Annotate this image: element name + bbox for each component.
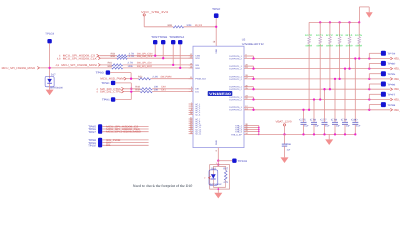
svg-text:VNI8E30: VNI8E30: [209, 92, 231, 96]
svg-text:18: 18: [190, 112, 192, 115]
svg-text:VCC_STB_3V3: VCC_STB_3V3: [141, 11, 169, 14]
svg-text:HSD_OUT6: HSD_OUT6: [394, 108, 400, 112]
svg-text:R59: R59: [111, 55, 116, 58]
svg-text:1uF: 1uF: [346, 125, 351, 128]
svg-text:BAT54GW: BAT54GW: [210, 183, 223, 186]
svg-text:R49: R49: [135, 88, 140, 91]
svg-text:2.7K: 2.7K: [129, 55, 135, 58]
svg-text:49R9: 49R9: [355, 45, 363, 48]
svg-text:TP88: TP88: [159, 36, 168, 39]
svg-text:SW_VDD: SW_VDD: [195, 24, 202, 27]
svg-text:R72: R72: [326, 34, 334, 37]
svg-text:OUTPUT5_2: OUTPUT5_2: [229, 109, 242, 112]
svg-text:TP92: TP92: [212, 8, 221, 11]
svg-text:DI1: DI1: [106, 144, 111, 147]
svg-text:OUTPUT6_2: OUTPUT6_2: [229, 57, 242, 60]
svg-text:DI1: DI1: [161, 88, 166, 91]
svg-text:TP103: TP103: [45, 33, 55, 36]
svg-text:OUTPUT2_2: OUTPUT2_2: [229, 78, 242, 81]
svg-text:DI1: DI1: [195, 91, 199, 94]
svg-text:MCU_HSD_PWM: MCU_HSD_PWM: [100, 78, 124, 81]
svg-text:NC_6: NC_6: [195, 113, 200, 116]
svg-text:4.7K: 4.7K: [223, 181, 228, 184]
svg-text:TP93: TP93: [96, 72, 105, 75]
svg-text:R75: R75: [355, 34, 363, 37]
svg-text:BAT54GW: BAT54GW: [50, 87, 63, 90]
svg-text:16: 16: [213, 41, 216, 44]
svg-text:1uF: 1uF: [336, 125, 341, 128]
svg-text:TAB_4: TAB_4: [235, 130, 242, 133]
svg-text:TP108: TP108: [238, 160, 248, 163]
svg-text:GND: GND: [215, 140, 218, 145]
svg-text:VDD: VDD: [215, 49, 218, 54]
svg-text:R70: R70: [305, 34, 313, 37]
svg-text:TP95: TP95: [387, 73, 396, 76]
svg-text:R67: R67: [223, 167, 228, 170]
svg-text:R63: R63: [108, 65, 113, 68]
svg-text:C78: C78: [331, 119, 338, 122]
svg-text:NC_14: NC_14: [195, 133, 201, 136]
svg-text:TP80: TP80: [387, 63, 396, 66]
svg-text:MCU_SPI_HSD08_MOSI: MCU_SPI_HSD08_MOSI: [106, 131, 141, 134]
svg-text:SDO: SDO: [195, 67, 200, 70]
svg-text:4: 4: [96, 91, 98, 94]
svg-text:R73: R73: [336, 34, 344, 37]
svg-text:SDI: SDI: [195, 64, 199, 67]
svg-text:TP96: TP96: [387, 83, 396, 86]
svg-text:R71: R71: [316, 34, 324, 37]
svg-text:PWM_CLK: PWM_CLK: [195, 78, 206, 81]
svg-text:TP98: TP98: [387, 104, 396, 107]
svg-text:TP90: TP90: [101, 82, 110, 85]
svg-text:MCU_SPI_HSD08_CLK: MCU_SPI_HSD08_CLK: [63, 57, 97, 60]
svg-text:DI0: DI0: [195, 88, 199, 91]
svg-text:SW_DI1_CTRL: SW_DI1_CTRL: [100, 91, 122, 94]
svg-text:C75: C75: [299, 119, 306, 122]
svg-text:C79: C79: [341, 119, 348, 122]
svg-text:49R9: 49R9: [336, 45, 344, 48]
svg-text:SW_SPI_SDO: SW_SPI_SDO: [137, 65, 152, 68]
svg-text:4,8: 4,8: [57, 57, 61, 60]
svg-text:TP97: TP97: [387, 94, 396, 97]
svg-text:R74: R74: [346, 34, 354, 37]
svg-text:1uF: 1uF: [356, 125, 361, 128]
svg-text:OUTPUT4_2: OUTPUT4_2: [229, 98, 242, 101]
svg-text:100E: 100E: [186, 24, 192, 27]
svg-text:D18: D18: [211, 167, 216, 170]
svg-text:C76: C76: [310, 119, 317, 122]
svg-text:C80: C80: [351, 119, 358, 122]
svg-text:100E: 100E: [128, 65, 134, 68]
svg-text:1uF: 1uF: [304, 125, 309, 128]
svg-text:OUTPUT1_2: OUTPUT1_2: [229, 68, 242, 71]
svg-text:HSD_OUT1: HSD_OUT1: [394, 57, 400, 61]
svg-text:VBAT_12V0: VBAT_12V0: [276, 120, 293, 123]
svg-text:VNI8E30TR: VNI8E30TR: [242, 43, 264, 46]
svg-text:2.2K: 2.2K: [152, 75, 158, 78]
svg-text:1uF: 1uF: [287, 149, 291, 152]
svg-text:HSD_OUT4: HSD_OUT4: [394, 87, 400, 91]
svg-text:C66: C66: [287, 143, 292, 146]
svg-text:TP79: TP79: [387, 53, 396, 56]
svg-text:TP102: TP102: [88, 145, 96, 148]
svg-text:TP97: TP97: [88, 131, 96, 134]
svg-text:MCU_SPI_HSD08_MOSI: MCU_SPI_HSD08_MOSI: [61, 64, 97, 67]
svg-text:SW_SPI_CLK: SW_SPI_CLK: [137, 55, 153, 58]
svg-text:R69: R69: [168, 24, 173, 27]
svg-text:Need to check the footprint of: Need to check the footprint of the D10: [133, 184, 193, 188]
svg-text:18: 18: [190, 131, 192, 134]
svg-text:10K: 10K: [154, 88, 159, 91]
svg-text:4,8: 4,8: [56, 64, 60, 67]
svg-text:OUTPUT3_2: OUTPUT3_2: [229, 88, 242, 91]
svg-text:HSD_OUT2: HSD_OUT2: [394, 67, 400, 71]
svg-text:HSD_OUT3: HSD_OUT3: [394, 77, 400, 81]
svg-text:TAB_5_EP: TAB_5_EP: [231, 133, 242, 136]
svg-text:R52: R52: [138, 75, 143, 78]
svg-text:1uF: 1uF: [325, 125, 330, 128]
svg-text:HSD_OUT5: HSD_OUT5: [394, 98, 400, 102]
svg-text:9: 9: [216, 150, 218, 153]
svg-text:TP94: TP94: [176, 36, 185, 39]
svg-text:49R9: 49R9: [326, 45, 334, 48]
svg-text:49R9: 49R9: [305, 45, 313, 48]
svg-text:U3: U3: [242, 39, 246, 42]
svg-text:1uF: 1uF: [315, 125, 320, 128]
svg-text:SCK: SCK: [195, 57, 200, 60]
svg-text:C77: C77: [320, 119, 327, 122]
svg-text:2: 2: [204, 177, 206, 180]
svg-text:MCU_SPI_HSD08_MISO: MCU_SPI_HSD08_MISO: [2, 67, 36, 70]
svg-text:TP91: TP91: [102, 99, 111, 102]
svg-text:49R9: 49R9: [316, 45, 324, 48]
svg-text:SW_PWM: SW_PWM: [160, 75, 171, 78]
svg-text:49R9: 49R9: [346, 45, 354, 48]
